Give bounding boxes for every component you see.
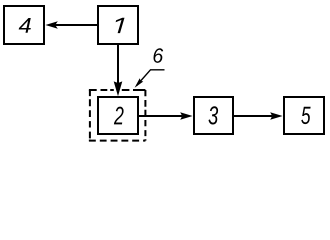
arrow box2 to box3 — [139, 112, 193, 119]
arrow box3 to box5 — [234, 112, 283, 119]
box 5 — [284, 97, 324, 134]
leader line for label 6 — [135, 70, 165, 88]
box 2 — [98, 97, 138, 134]
box 4 — [4, 6, 44, 44]
label 6 — [154, 48, 164, 63]
arrow box1 to box4 — [45, 21, 97, 29]
dashed enclosure (unit 6) — [89, 90, 145, 141]
box 3 — [194, 97, 233, 134]
box 1 — [98, 6, 138, 44]
arrow box1 to box2 — [114, 45, 123, 96]
